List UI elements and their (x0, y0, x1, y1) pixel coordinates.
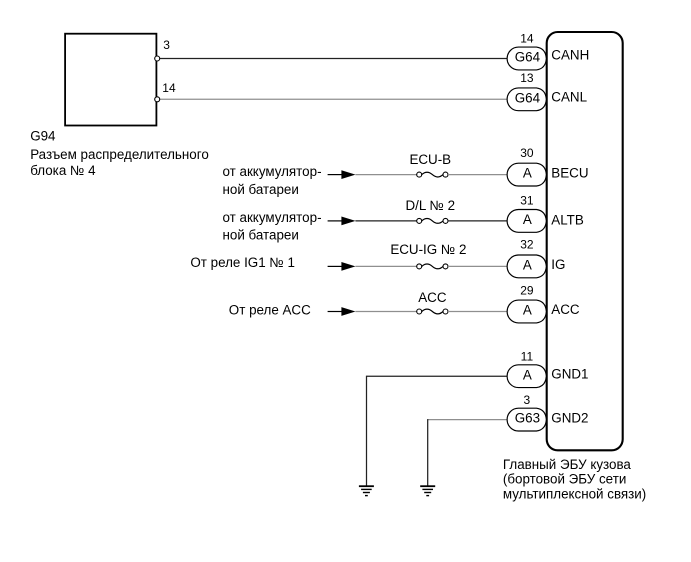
svg-text:3: 3 (163, 38, 170, 52)
svg-text:32: 32 (520, 237, 534, 251)
svg-text:ECU-IG № 2: ECU-IG № 2 (390, 242, 466, 257)
wire CANL: G94 pin 14 to ECU pin 13 (160, 98, 509, 100)
ground symbol 2 (GND2) (420, 486, 435, 495)
wire GND1 vertical drop to ground (366, 376, 368, 486)
svg-text:ной батареи: ной батареи (223, 182, 299, 197)
ECU main body box (547, 32, 623, 450)
fuse ECU-B (417, 172, 422, 177)
svg-text:CANH: CANH (551, 48, 589, 63)
svg-text:A: A (523, 166, 532, 181)
ECU pin terminal oval A for ALTB (507, 210, 546, 233)
wire: arrow to fuse ECU-B (355, 174, 417, 176)
svg-text:IG: IG (551, 257, 565, 272)
svg-text:Главный ЭБУ кузова: Главный ЭБУ кузова (503, 457, 632, 472)
svg-text:G63: G63 (515, 411, 540, 426)
svg-text:GND2: GND2 (551, 411, 588, 426)
ECU pin terminal oval A for IG (507, 255, 546, 278)
ground symbol 1 (GND1) (359, 486, 374, 495)
ECU pin terminal oval G64 for CANL (507, 88, 546, 111)
svg-text:блока № 4: блока № 4 (30, 163, 96, 178)
G94 pin 14 terminal circle (155, 97, 160, 102)
wire: arrow to fuse D/L № 2 (355, 220, 417, 222)
arrow row IG (328, 265, 343, 267)
svg-text:14: 14 (520, 31, 534, 45)
arrow row BECU (328, 174, 343, 176)
fuse ACC (417, 309, 422, 314)
svg-text:13: 13 (520, 71, 534, 85)
junction/distribution block connector G94 box (65, 34, 156, 126)
svg-text:G94: G94 (30, 129, 56, 144)
wire: fuse ECU-B to ECU pin (448, 174, 508, 176)
fuse D/L № 2 (417, 218, 422, 223)
wire GND2 horizontal (428, 419, 508, 421)
arrow row ALTB (328, 220, 343, 222)
svg-text:30: 30 (520, 146, 534, 160)
svg-text:Разъем распределительного: Разъем распределительного (30, 147, 209, 162)
wire GND1 horizontal (367, 375, 509, 377)
wire: fuse ACC to ECU pin (448, 311, 508, 313)
svg-text:D/L № 2: D/L № 2 (406, 198, 456, 213)
svg-text:от аккумулятор-: от аккумулятор- (223, 210, 322, 225)
svg-text:G64: G64 (515, 50, 541, 65)
svg-text:от аккумулятор-: от аккумулятор- (223, 164, 322, 179)
wire GND2 vertical drop to ground (427, 419, 429, 486)
svg-text:GND1: GND1 (551, 366, 588, 381)
ECU pin terminal oval G63 for GND2 (507, 408, 546, 431)
svg-text:BECU: BECU (551, 165, 588, 180)
svg-text:A: A (523, 212, 532, 227)
svg-text:CANL: CANL (551, 90, 587, 105)
arrow row ACC (328, 311, 343, 313)
svg-text:ной батареи: ной батареи (223, 228, 299, 243)
ECU pin terminal oval A for BECU (507, 163, 546, 186)
ECU pin terminal oval G64 for CANH (507, 47, 546, 70)
svg-text:A: A (523, 303, 532, 318)
svg-text:ACC: ACC (418, 290, 447, 305)
fuse ECU-IG № 2 (417, 264, 422, 269)
svg-text:A: A (523, 258, 532, 273)
wire: arrow to fuse ECU-IG № 2 (355, 265, 417, 267)
svg-text:От реле ACC: От реле ACC (229, 302, 311, 317)
G94 pin 3 terminal circle (155, 56, 160, 61)
svg-text:3: 3 (524, 393, 531, 407)
wire: fuse D/L № 2 to ECU pin (448, 220, 508, 222)
svg-text:G64: G64 (515, 90, 541, 105)
svg-text:мультиплексной связи): мультиплексной связи) (503, 486, 646, 501)
svg-text:(бортовой ЭБУ сети: (бортовой ЭБУ сети (503, 472, 626, 487)
svg-text:От реле IG1 № 1: От реле IG1 № 1 (190, 255, 295, 270)
wire CANH: G94 pin 3 to ECU pin 14 (160, 58, 509, 60)
ECU pin terminal oval A for ACC (507, 300, 546, 323)
svg-text:ECU-B: ECU-B (409, 152, 451, 167)
svg-text:31: 31 (520, 194, 534, 208)
svg-text:A: A (523, 367, 532, 382)
svg-text:ALTB: ALTB (551, 213, 584, 228)
wire: fuse ECU-IG № 2 to ECU pin (448, 265, 508, 267)
svg-text:14: 14 (162, 81, 176, 95)
wire: arrow to fuse ACC (355, 311, 417, 313)
svg-text:29: 29 (520, 284, 534, 298)
svg-text:11: 11 (521, 350, 534, 364)
svg-text:ACC: ACC (551, 302, 580, 317)
ECU pin terminal oval A for GND1 (507, 365, 546, 388)
